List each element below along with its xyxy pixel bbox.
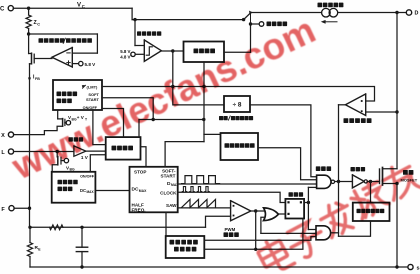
wire supply box to internal-supply node [224, 51, 251, 53]
label flip-flop [289, 192, 293, 196]
svg-text:MAX: MAX [139, 189, 147, 193]
svg-text:C: C [37, 23, 40, 27]
terminal internal supply [259, 22, 264, 27]
wire U1 plus input to 5.8V ref [72, 63, 78, 65]
label leading edge blanking [357, 209, 361, 213]
label freq box line2 [174, 247, 179, 252]
wire L pin to comparator input [14, 151, 74, 153]
svg-text:SAW: SAW [166, 203, 177, 208]
wire to osc soft-start [165, 142, 204, 167]
svg-text:START: START [86, 97, 100, 102]
flip-flop Q mark [300, 201, 302, 203]
box stop logic [106, 137, 141, 160]
terminal S pin [408, 264, 413, 269]
wire line-sense ON/OFF up to stop logic [90, 155, 105, 172]
transistor Q1 shunt [28, 34, 30, 54]
label shutdown/auto-restart p1 [219, 116, 223, 120]
node compensation [28, 226, 31, 229]
wire blanking out to comparator bus [339, 221, 371, 236]
wire ILIMIT to comparator [102, 87, 375, 102]
label line sense line2 [58, 187, 63, 192]
wire driver out to gate [367, 181, 379, 183]
Ifb arrow [29, 72, 31, 80]
svg-text:V: V [77, 3, 81, 9]
watermark dianzifashaoyou [255, 160, 420, 274]
terminal L pin [8, 149, 13, 154]
transistor Q4 power MOSFET [379, 169, 381, 184]
nand-gate G2 main gate [317, 175, 331, 188]
wire cur-limit ON/OFF A to stop logic top [102, 109, 124, 138]
wire U3 out down [255, 211, 257, 249]
wire C to Vc node [13, 7, 28, 9]
box hysteretic thermal shutdown [221, 133, 259, 160]
wire comparator/AND vertical join [338, 105, 340, 236]
box leading edge blanking [353, 203, 390, 221]
wire div8 out to main gate [250, 105, 317, 177]
box divide-by-8 counter [224, 96, 250, 112]
op-amp U3 PWM comparator [231, 201, 251, 221]
wire branch to thermal box [204, 133, 221, 135]
driver buffer G4 [352, 175, 364, 188]
label pwm comparator cjk [224, 232, 229, 237]
capacitor C1 [81, 227, 83, 247]
svg-text:C: C [82, 4, 85, 9]
terminal D (drain pin) [406, 10, 411, 15]
resistor RE [29, 227, 31, 242]
label shutdown/auto-restart p2 [231, 116, 235, 120]
label error amplifier part2 [66, 38, 71, 43]
wire current source to drain node [338, 12, 397, 14]
svg-text:C: C [0, 7, 5, 13]
svg-text:X: X [1, 133, 5, 139]
wire UV comp output down to div8 [173, 51, 224, 105]
wire H2 into stop logic [138, 120, 140, 138]
wire Q3 source to X pin [14, 126, 63, 134]
transistor Q3 with Vbg+Vt gate [57, 110, 59, 119]
svg-text:÷ 8: ÷ 8 [233, 102, 242, 109]
wire down to UV comparator [134, 20, 136, 46]
label undervoltage comparator [137, 31, 141, 35]
svg-text:5.8 V: 5.8 V [85, 62, 97, 67]
terminal Vbg [64, 158, 68, 162]
box internal supply regulator [184, 42, 225, 63]
wire to internal supply terminal [251, 23, 260, 25]
svg-text:STOP: STOP [134, 169, 146, 174]
label thermal shutdown [225, 143, 230, 148]
label supply box text [194, 49, 199, 54]
waveform CLOCK ticks [182, 187, 186, 192]
svg-text:MAX: MAX [87, 190, 95, 194]
wire cur-limit ON/OFF B to stop logic left [93, 110, 106, 145]
wire supply box bottom vertical [203, 62, 205, 142]
box oscillator [130, 167, 178, 213]
node junction on Vc wire [133, 18, 136, 21]
wire CLOCK to flip-flop [178, 192, 286, 202]
resistor Zc [28, 8, 30, 15]
svg-text:CLOCK: CLOCK [160, 191, 177, 196]
wire U4 out to vertical [339, 104, 346, 106]
source rail [30, 266, 408, 268]
switch S1 [242, 18, 245, 21]
label freq box line1 [170, 240, 175, 245]
wire U2 output to supply box [161, 50, 183, 52]
wire Vc top rail [29, 7, 133, 9]
box flip-flop latch [285, 199, 304, 219]
wire AND in2 long [261, 232, 316, 234]
op-amp U1 error amplifier (points left) [52, 48, 72, 68]
svg-text:D: D [415, 11, 419, 17]
flip-flop R mark [287, 213, 289, 215]
label high-voltage current source [318, 3, 323, 8]
current source high-voltage [322, 8, 331, 17]
U3 input marks [233, 205, 235, 207]
wire DMAX to main gate [178, 183, 317, 185]
wire U4 lower input to drain sense [366, 111, 397, 113]
box current limit adjuster [53, 80, 102, 110]
svg-text:FB: FB [35, 77, 40, 81]
wire freq box out A to flip-flop bottom [204, 219, 303, 250]
wire AND out up to driver node [331, 232, 339, 234]
wire flip-flop Q to vertical bus [304, 202, 308, 204]
label current-limit line1 [57, 92, 62, 97]
and-gate G3 [316, 226, 331, 240]
svg-text:FREQ.: FREQ. [132, 207, 146, 212]
wire gate node down to blanking box [370, 182, 372, 203]
label driver [351, 167, 355, 171]
watermark www.elecfans.com [5, 9, 322, 187]
box switching frequency select [166, 236, 205, 258]
svg-text:(LMT): (LMT) [87, 85, 99, 90]
waveform sawtooth [182, 199, 216, 207]
flip-flop S mark [287, 201, 289, 203]
I(LIMIT) output label with arrow [83, 85, 86, 88]
slash in label [63, 38, 65, 43]
wire Vc to switch [132, 19, 244, 21]
svg-text:START: START [161, 173, 176, 178]
node capacitor tap [80, 226, 83, 229]
svg-text:s: s [417, 266, 420, 272]
wire error amp feedback top [29, 33, 98, 35]
wire osc bottom to freq box [165, 212, 167, 236]
wire stop logic out to oscillator STOP [141, 147, 147, 167]
svg-text:DC: DC [80, 188, 86, 193]
wire switch to current source [251, 12, 322, 14]
node internal supply [249, 22, 252, 25]
svg-text:5.8 V: 5.8 V [120, 49, 130, 54]
svg-text:ON/OFF: ON/OFF [80, 174, 95, 178]
wire compensation bus to PWM inverting input [30, 226, 206, 228]
label stop logic [112, 146, 117, 151]
pin C terminal [8, 6, 13, 11]
svg-text:PWM: PWM [225, 227, 236, 232]
transistor Q2 with Vbg gate [56, 152, 58, 157]
wire Q bus vertical [307, 187, 309, 229]
wire F pin to Ifb vertical [14, 207, 29, 209]
wire U3 out to OR [251, 210, 266, 212]
label internal supply [267, 22, 272, 27]
wire soft-start to H2 [102, 98, 153, 120]
or-gate G1 [264, 208, 279, 221]
wire OR out to flip-flop [279, 213, 286, 215]
wire into error amp inverting input [72, 52, 97, 54]
label overcurrent comparator [344, 118, 349, 123]
terminal F pin [9, 206, 14, 211]
wire Q2 source to line sense box [52, 165, 58, 172]
label comparator [69, 137, 73, 141]
wire feedback right vertical [96, 34, 98, 53]
wire NAND out to driver [335, 181, 353, 183]
wire freq box out B to AND gate [204, 237, 316, 241]
U2 hysteresis glyph [146, 47, 152, 55]
op-amp U2 undervoltage comparator [144, 40, 161, 61]
wire Vc jog down [131, 8, 133, 19]
terminal 5.8V ref [79, 61, 83, 65]
waveform DMAX square pulses [182, 176, 220, 184]
slash [228, 116, 230, 120]
wire thermal out to main gate [258, 148, 317, 180]
wire to D terminal [397, 12, 406, 14]
wire Q to AND input1 [308, 229, 316, 231]
wire buffer out to stop logic [86, 150, 106, 152]
wire Zc to feedback node [28, 29, 30, 35]
U1 minus sign [67, 52, 70, 54]
label power cjk [403, 170, 408, 175]
wire threshold terminal to U2 [135, 53, 144, 55]
label main gate [316, 166, 321, 171]
wire H2 horizontal [139, 119, 204, 121]
wire Ifb vertical (Q1 source down to bottom RC node) [29, 64, 31, 228]
U1 plus sign [67, 62, 70, 64]
box line sense detector [52, 172, 96, 203]
wire SAW to PWM comparator [178, 207, 231, 209]
svg-text:4.8 V: 4.8 V [120, 55, 130, 60]
terminal UV thresholds [131, 52, 135, 56]
U4 input marks [361, 100, 363, 102]
terminal X pin [8, 132, 13, 137]
wire line-sense DCMAX to oscillator [95, 190, 129, 192]
wire MOSFET source down to source rail [396, 184, 398, 268]
label line sense line1 [58, 180, 63, 185]
op-amp U4 current limit comparator (points left) [345, 94, 365, 116]
resistor series on bus [50, 225, 64, 230]
label shunt-regulator/error-amplifier [39, 38, 44, 43]
current source arrow [324, 21, 337, 23]
wire Q to main gate input4 [308, 186, 316, 188]
terminal Vbg+Vt [66, 121, 70, 125]
label current-limit line2 [57, 99, 62, 104]
wire OR lower input [261, 217, 265, 233]
